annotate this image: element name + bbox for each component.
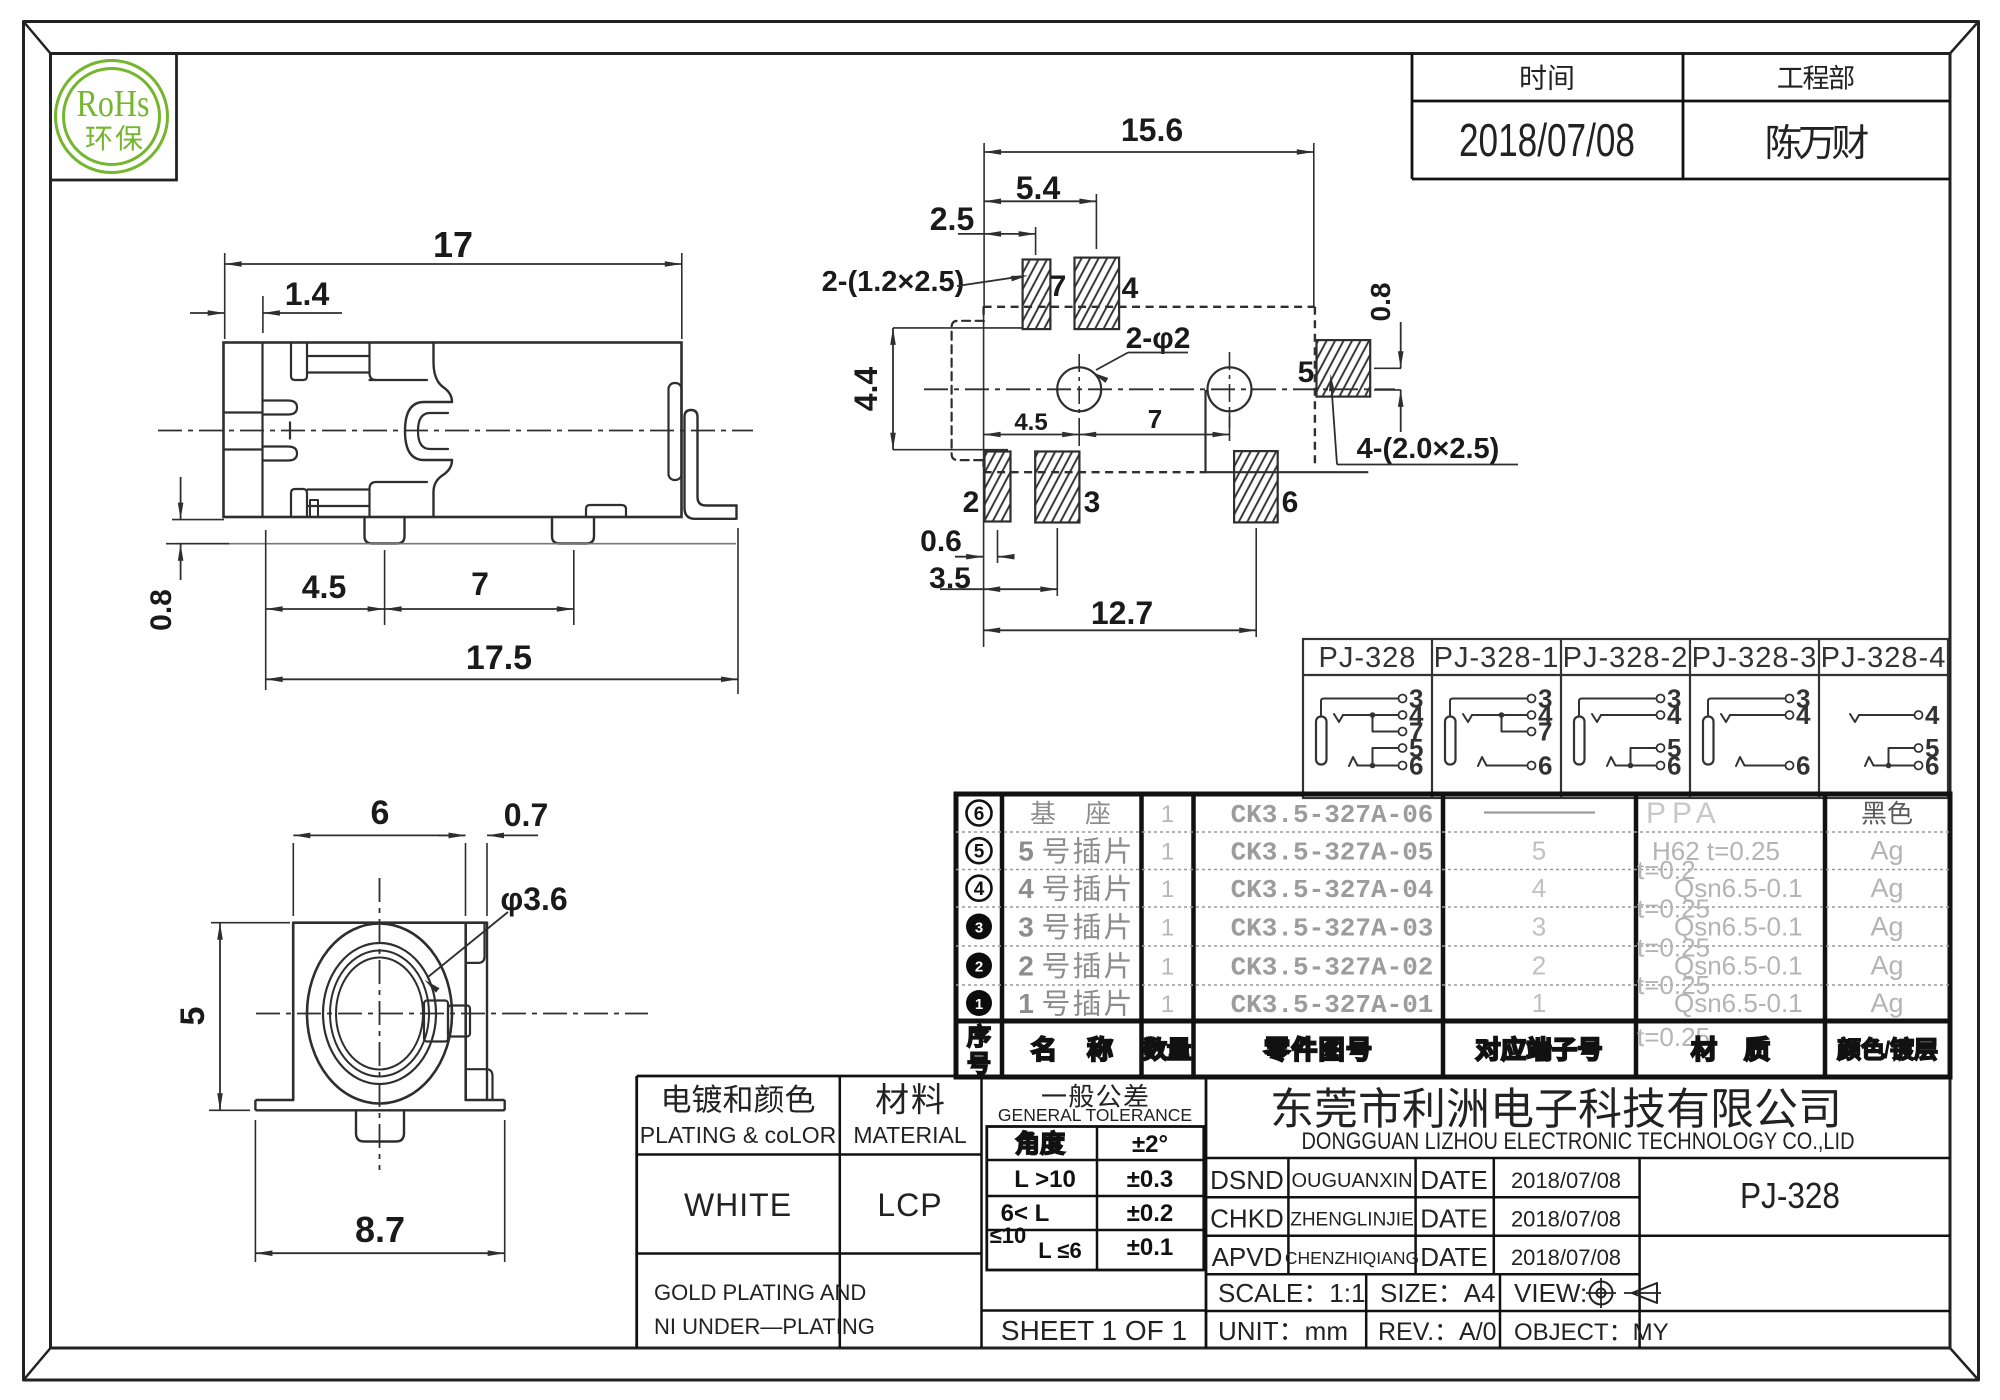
svg-text:17: 17: [433, 224, 473, 265]
svg-text:±0.2: ±0.2: [1127, 1200, 1174, 1227]
dimension 0.6: [920, 525, 1014, 563]
BOM part number CK3.5-327A-04: [1231, 875, 1434, 905]
front view: jack hole ring: [336, 958, 423, 1070]
jack wire to pin 3 col3: [1708, 684, 1810, 717]
svg-text:CK3.5-327A-02: CK3.5-327A-02: [1231, 953, 1434, 983]
svg-text:t=0.25: t=0.25: [1637, 894, 1710, 924]
svg-text:0.8: 0.8: [1365, 283, 1396, 322]
dimension 7 side: [385, 550, 574, 625]
scale row: [1218, 1278, 1587, 1308]
svg-text:2: 2: [1018, 951, 1034, 982]
side view: top terminal arm double line: [307, 356, 370, 373]
jack sleeve symbol col0: [1316, 717, 1327, 765]
label phi3.6: [425, 881, 568, 993]
jack tip contact wire pin 4 col4: [1850, 700, 1940, 730]
BOM part name 基 座: [1031, 801, 1110, 825]
svg-text:7: 7: [471, 566, 489, 602]
variants header PJ-328-3: [1692, 642, 1818, 674]
BOM row index 5: [967, 838, 992, 863]
jack tip contact wire pin 4 col3: [1721, 700, 1811, 730]
BOM table header separator: [956, 1019, 1950, 1024]
svg-text:4.4: 4.4: [848, 367, 884, 412]
dimension 0.8 right: [1365, 283, 1404, 432]
dimension 0.8 left: [145, 477, 229, 631]
footprint: dashed body right edge: [1314, 307, 1316, 464]
svg-text:CK3.5-327A-03: CK3.5-327A-03: [1231, 914, 1434, 944]
BOM row index 3: [966, 914, 992, 940]
dimension 4.5 side: [266, 530, 385, 690]
svg-text:APVD: APVD: [1212, 1242, 1283, 1272]
svg-text:ZHENGLINJIE: ZHENGLINJIE: [1290, 1210, 1414, 1231]
svg-text:UNIT：mm: UNIT：mm: [1218, 1316, 1348, 1346]
svg-text:2-φ2: 2-φ2: [1126, 322, 1191, 355]
jack tip contact wire pin 4 col2: [1592, 700, 1682, 730]
BOM table row lines: [956, 832, 1950, 985]
footprint: solid bracket outline bottom right: [1206, 390, 1369, 472]
svg-text:PJ-328: PJ-328: [1319, 642, 1417, 674]
svg-text:5: 5: [174, 1007, 212, 1026]
front view: top right hook cutout: [466, 924, 485, 963]
side view: upper contact tab capsule: [263, 401, 298, 415]
svg-text:PPA: PPA: [1646, 797, 1722, 830]
jack sleeve symbol col3: [1703, 717, 1714, 765]
jack wire to pin 3 col0: [1321, 684, 1423, 717]
label 4-(2.0x2.5): [1329, 374, 1518, 465]
jack ring contact wire pin 6 col3: [1736, 751, 1810, 781]
svg-text:REV.：A/0: REV.：A/0: [1378, 1318, 1497, 1346]
svg-text:L >10: L >10: [1014, 1166, 1076, 1193]
BOM header 颜色/镀层: [1838, 1037, 1937, 1064]
svg-text:5.4: 5.4: [1016, 170, 1061, 206]
front view: vertical centerline: [379, 878, 381, 1170]
side view: centerline: [158, 430, 753, 432]
svg-text:12.7: 12.7: [1091, 595, 1153, 631]
side view: front wall line: [261, 343, 263, 518]
svg-text:GOLD PLATING AND: GOLD PLATING AND: [654, 1280, 866, 1305]
footprint: pad 4 label: [1122, 272, 1139, 305]
variants table grid: [1303, 639, 1948, 798]
svg-text:4: 4: [1925, 700, 1940, 730]
footprint: dashed left protrusion: [952, 321, 984, 460]
svg-text:7: 7: [1148, 404, 1162, 434]
unit row: [1218, 1316, 1669, 1346]
BOM plating Ag: [1870, 912, 1903, 942]
jack ring contact wire pins 5,6 col0: [1349, 733, 1423, 781]
RoHS logo text: [77, 83, 150, 125]
engineer name 陈万财: [1768, 124, 1868, 159]
footprint: pad 6 hatched: [1234, 451, 1278, 522]
variants header PJ-328-1: [1434, 642, 1560, 674]
BOM material Qsn row: [1637, 894, 1803, 942]
svg-text:PJ-328-4: PJ-328-4: [1821, 642, 1947, 674]
signoff row APVD: [1212, 1242, 1621, 1272]
svg-text:PJ-328-2: PJ-328-2: [1563, 642, 1689, 674]
footprint: pad 2 label: [963, 486, 980, 519]
svg-text:0.8: 0.8: [145, 589, 178, 631]
svg-text:CK3.5-327A-01: CK3.5-327A-01: [1231, 990, 1434, 1020]
view symbol target: [1586, 1278, 1616, 1308]
dimension 17.5: [266, 528, 738, 694]
jack sleeve symbol col1: [1445, 717, 1456, 765]
jack ring contact wire pins 5,6 col4: [1865, 733, 1939, 781]
svg-text:LCP: LCP: [877, 1187, 942, 1223]
front view: mounting flange: [255, 1100, 504, 1110]
svg-text:5: 5: [1409, 733, 1423, 763]
BOM plating Ag: [1870, 951, 1903, 981]
company section rows: [1206, 1158, 1950, 1348]
footprint: main centerline: [924, 388, 1395, 390]
BOM plating Ag: [1870, 988, 1903, 1018]
dimension 5.4: [984, 170, 1096, 249]
tolerance row L>10: [1014, 1166, 1173, 1193]
BOM header 名称: [1032, 1037, 1112, 1061]
svg-text:PJ-328: PJ-328: [1740, 1175, 1840, 1216]
svg-text:CK3.5-327A-04: CK3.5-327A-04: [1231, 875, 1434, 905]
side view: bottom terminal arm double line: [307, 490, 370, 507]
tolerance row 6<L: [1001, 1200, 1174, 1227]
footprint: hole 2 circle: [1208, 352, 1252, 428]
svg-text:L ≤6: L ≤6: [1038, 1238, 1081, 1263]
svg-text:PLATING & coLOR: PLATING & coLOR: [640, 1122, 836, 1148]
date table header 时间: [1521, 65, 1572, 91]
title 材料: [876, 1083, 944, 1114]
svg-text:Ag: Ag: [1870, 912, 1903, 942]
variants header PJ-328: [1319, 642, 1417, 674]
svg-text:5: 5: [1667, 733, 1681, 763]
tolerance row 角度: [1016, 1131, 1168, 1158]
BOM row index 2: [966, 953, 992, 979]
svg-text:5: 5: [974, 842, 985, 863]
RoHS logo circles: [56, 61, 168, 173]
BOM header 零件图号: [1265, 1037, 1370, 1061]
side view: spring horseshoe outer arc: [405, 402, 452, 460]
title 电镀和颜色: [664, 1084, 814, 1113]
front view: switch contact block B: [448, 1006, 470, 1037]
svg-text:6: 6: [1796, 751, 1810, 781]
BOM terminal number 4: [1532, 873, 1546, 903]
svg-text:7: 7: [1538, 717, 1552, 747]
svg-text:0.6: 0.6: [920, 525, 962, 558]
BOM row index 6: [967, 801, 992, 826]
side view: solder foot right: [552, 517, 594, 544]
jack sleeve symbol col2: [1574, 717, 1585, 765]
svg-text:4: 4: [974, 879, 985, 900]
dimension 12.7: [983, 528, 1256, 637]
footprint: pad 3 label: [1084, 486, 1101, 519]
BOM part number CK3.5-327A-03: [1231, 914, 1434, 944]
svg-text:5: 5: [1925, 733, 1939, 763]
title PLATING & coLOR: [640, 1122, 836, 1148]
svg-text:t=0.25: t=0.25: [1637, 933, 1710, 963]
svg-text:6: 6: [1282, 486, 1299, 519]
svg-text:0.7: 0.7: [504, 797, 548, 833]
svg-text:RoHs: RoHs: [77, 83, 150, 125]
footprint: pad 4 hatched: [1075, 258, 1120, 330]
footprint: pad 5 hatched: [1317, 340, 1371, 397]
svg-text:2: 2: [975, 959, 983, 976]
svg-text:3: 3: [1532, 912, 1546, 942]
signoff row DSND: [1210, 1165, 1621, 1195]
side view: bottom inner step: [310, 500, 318, 517]
front view: switch contact block A: [424, 1001, 448, 1042]
svg-text:3: 3: [1018, 912, 1034, 943]
side view: right L-bracket: [685, 410, 737, 519]
BOM row index 4: [967, 876, 992, 901]
footprint: dashed body outline top edge: [984, 306, 1315, 308]
svg-text:VIEW:: VIEW:: [1514, 1278, 1587, 1308]
side view: solder foot left: [365, 517, 405, 544]
side view: spring nose S-curve top: [434, 343, 453, 403]
footprint: pad 2 hatched: [985, 452, 1011, 522]
svg-text:4: 4: [1018, 873, 1034, 904]
side view: connector body outline: [224, 343, 682, 518]
BOM part name 4号插片: [1018, 873, 1129, 904]
variants header PJ-328-2: [1563, 642, 1689, 674]
side view: spring horseshoe inner arc: [418, 413, 448, 449]
jack tip contact wire pins 4,7 col0: [1334, 700, 1424, 747]
dimension 0.7 front: [438, 797, 548, 916]
SHEET 1 OF 1: [1001, 1315, 1187, 1346]
note GOLD PLATING AND: [654, 1280, 866, 1305]
svg-text:SCALE：1:1: SCALE：1:1: [1218, 1278, 1365, 1308]
front view: side plate right edge: [486, 923, 488, 1100]
BOM material H62: [1652, 836, 1780, 866]
signoff row CHKD: [1210, 1204, 1621, 1234]
svg-text:2: 2: [1532, 951, 1546, 981]
jack wire to pin 3 col1: [1450, 684, 1552, 717]
svg-text:4: 4: [1796, 700, 1811, 730]
dimension 8.7: [255, 1120, 504, 1262]
svg-text:φ3.6: φ3.6: [500, 881, 567, 917]
BOM row index 1: [966, 990, 992, 1016]
svg-text:Ag: Ag: [1870, 873, 1903, 903]
svg-text:5: 5: [1018, 836, 1034, 867]
view symbol cone: [1624, 1283, 1661, 1303]
svg-text:17.5: 17.5: [466, 639, 532, 677]
label 2-phi2: [1092, 322, 1190, 383]
dimension 3.5: [929, 528, 1057, 596]
svg-text:NI UNDER—PLATING: NI UNDER—PLATING: [654, 1314, 875, 1339]
side view: left ledge lines: [224, 413, 263, 450]
svg-text:1: 1: [1161, 915, 1174, 942]
BOM terminal number 3: [1532, 912, 1546, 942]
svg-text:PJ-328-3: PJ-328-3: [1692, 642, 1818, 674]
front view: horizontal centerline: [256, 1013, 648, 1015]
BOM header 对应端子号: [1477, 1037, 1601, 1060]
svg-text:DATE: DATE: [1420, 1165, 1487, 1195]
side view: bottom spring block: [370, 482, 428, 517]
svg-text:Ag: Ag: [1870, 951, 1903, 981]
svg-text:3.5: 3.5: [929, 562, 971, 595]
side view: contact gap tick: [289, 422, 291, 440]
jack ring contact wire pins 5,6 col2: [1607, 733, 1681, 781]
BOM plating Ag: [1870, 836, 1903, 866]
footprint: pad 7 label: [1050, 270, 1067, 303]
svg-text:t=0.2: t=0.2: [1637, 855, 1696, 885]
tolerance title 一般公差: [1042, 1084, 1147, 1108]
BOM material PPA: [1646, 797, 1722, 830]
svg-text:±0.1: ±0.1: [1127, 1234, 1174, 1261]
svg-text:1: 1: [1161, 839, 1174, 866]
svg-text:SHEET 1 OF 1: SHEET 1 OF 1: [1001, 1315, 1187, 1346]
svg-text:CHKD: CHKD: [1210, 1204, 1284, 1234]
BOM material Qsn row: [1637, 855, 1803, 903]
dimension 15.6: [984, 112, 1314, 306]
value WHITE: [684, 1187, 792, 1223]
jack tip contact wire pins 4,7 col1: [1463, 700, 1553, 747]
dimension 7 footprint: [1079, 404, 1229, 441]
svg-text:6: 6: [371, 794, 390, 832]
tolerance row L<=6: [990, 1223, 1174, 1263]
BOM table outer border: [956, 794, 1950, 1077]
BOM part name 3号插片: [1018, 912, 1129, 943]
BOM part name 5号插片: [1018, 836, 1129, 867]
front view: housing box: [293, 923, 487, 1100]
footprint: pad 5 label: [1298, 356, 1315, 389]
note NI UNDER-PLATING: [654, 1314, 875, 1339]
footprint: pad 7 hatched: [1023, 260, 1051, 330]
BOM material Qsn row: [1637, 933, 1803, 981]
part number PJ-328: [1740, 1175, 1840, 1216]
front view: barrel outer ring: [307, 924, 452, 1104]
svg-text:3: 3: [1084, 486, 1101, 519]
svg-text:1: 1: [1161, 954, 1174, 981]
svg-text:5: 5: [1298, 356, 1315, 389]
BOM part number CK3.5-327A-05: [1231, 838, 1434, 868]
BOM quantity column: [1161, 801, 1174, 1018]
BOM plating Ag: [1870, 873, 1903, 903]
title block grid: [637, 1076, 1950, 1348]
dimension 4.4: [848, 328, 1022, 450]
svg-text:5: 5: [1532, 836, 1546, 866]
BOM material t=0.25 overflow: [1637, 1022, 1710, 1052]
svg-text:1: 1: [1018, 988, 1034, 1019]
svg-text:CK3.5-327A-06: CK3.5-327A-06: [1231, 800, 1434, 830]
svg-text:1: 1: [1532, 988, 1546, 1018]
BOM header 序号: [968, 1025, 990, 1074]
svg-text:1: 1: [1161, 876, 1174, 903]
BOM terminal number 5: [1532, 836, 1546, 866]
label 2-(1.2x2.5): [822, 266, 1028, 298]
svg-text:4: 4: [1667, 700, 1682, 730]
BOM terminal number 2: [1532, 951, 1546, 981]
svg-text:2-(1.2×2.5): 2-(1.2×2.5): [822, 266, 965, 298]
svg-text:7: 7: [1050, 270, 1067, 303]
BOM terminal dash row1: [1484, 811, 1595, 813]
footprint: dashed body bottom edge: [984, 471, 1206, 473]
svg-text:WHITE: WHITE: [684, 1187, 792, 1223]
svg-text:1.4: 1.4: [285, 276, 330, 312]
BOM part number CK3.5-327A-02: [1231, 953, 1434, 983]
svg-text:Ag: Ag: [1870, 836, 1903, 866]
tolerance title GENERAL TOLERANCE: [998, 1105, 1192, 1125]
svg-text:GENERAL TOLERANCE: GENERAL TOLERANCE: [998, 1105, 1192, 1125]
BOM part number CK3.5-327A-01: [1231, 990, 1434, 1020]
BOM material Qsn row: [1637, 970, 1803, 1018]
date value 2018/07/08: [1459, 114, 1635, 166]
RoHS logo box: [51, 54, 177, 181]
tolerance inner table: [982, 1127, 1207, 1311]
company name english: [1302, 1128, 1855, 1155]
footprint: pad 3 hatched: [1035, 452, 1079, 523]
BOM header 材质: [1692, 1037, 1769, 1061]
svg-text:1: 1: [975, 996, 983, 1013]
svg-text:/: /: [1884, 1037, 1891, 1064]
svg-text:2: 2: [963, 486, 980, 519]
front view: barrel ring 3: [330, 951, 429, 1077]
BOM header 数量: [1144, 1038, 1190, 1060]
BOM terminal number 1: [1532, 988, 1546, 1018]
svg-text:PJ-328-1: PJ-328-1: [1434, 642, 1560, 674]
BOM part name 1号插片: [1018, 988, 1129, 1019]
variants header PJ-328-4: [1821, 642, 1947, 674]
svg-text:t=0.25: t=0.25: [1637, 970, 1710, 1000]
svg-text:DATE: DATE: [1420, 1204, 1487, 1234]
dimension 1.4: [190, 276, 342, 333]
svg-text:4.5: 4.5: [1014, 409, 1047, 436]
side view: top terminal small block: [291, 343, 307, 381]
svg-text:±2°: ±2°: [1132, 1131, 1168, 1158]
svg-text:DATE: DATE: [1420, 1242, 1487, 1272]
svg-text:MATERIAL: MATERIAL: [853, 1122, 967, 1148]
svg-text:6: 6: [1538, 751, 1552, 781]
svg-text:2018/07/08: 2018/07/08: [1511, 1245, 1621, 1270]
side view: spring nose S-curve bottom: [434, 460, 453, 517]
svg-text:1: 1: [1161, 801, 1174, 828]
date table grid: [1412, 54, 1950, 180]
svg-text:4.5: 4.5: [302, 569, 346, 605]
dimension 2.5 top: [930, 201, 1036, 255]
company name chinese: [1273, 1087, 1837, 1128]
svg-text:CK3.5-327A-05: CK3.5-327A-05: [1231, 838, 1434, 868]
svg-text:2.5: 2.5: [930, 201, 974, 237]
dimension 4.5 footprint: [984, 306, 1080, 647]
svg-text:≤10: ≤10: [990, 1223, 1027, 1248]
BOM table column lines: [1002, 794, 1825, 1077]
svg-text:2018/07/08: 2018/07/08: [1511, 1168, 1621, 1193]
footprint: pad 6 label: [1282, 486, 1299, 519]
side view: retention bump on base: [586, 505, 626, 517]
svg-text:CHENZHIQIANG: CHENZHIQIANG: [1285, 1248, 1419, 1268]
svg-text:4: 4: [1532, 873, 1546, 903]
value LCP: [877, 1187, 942, 1223]
RoHS logo chinese 环保: [86, 125, 142, 151]
dimension 17: [225, 224, 682, 339]
svg-text:OBJECT：MY: OBJECT：MY: [1514, 1319, 1669, 1346]
side view: bottom terminal small block: [291, 489, 307, 517]
date table header 工程部: [1778, 65, 1853, 90]
footprint: dashed body left edge: [982, 307, 984, 472]
jack wire to pin 3 col2: [1579, 684, 1681, 717]
svg-text:DONGGUAN LIZHOU ELECTRONIC TEC: DONGGUAN LIZHOU ELECTRONIC TECHNOLOGY CO…: [1302, 1128, 1855, 1155]
svg-text:15.6: 15.6: [1121, 112, 1183, 148]
svg-text:SIZE：A4: SIZE：A4: [1380, 1278, 1496, 1308]
svg-text:±0.3: ±0.3: [1127, 1166, 1174, 1193]
svg-text:OUGUANXIN: OUGUANXIN: [1291, 1170, 1412, 1192]
svg-text:2018/07/08: 2018/07/08: [1459, 114, 1635, 166]
svg-text:8.7: 8.7: [355, 1209, 405, 1250]
title MATERIAL: [853, 1122, 967, 1148]
svg-text:1: 1: [1161, 991, 1174, 1018]
side view: lower contact tab capsule: [263, 447, 298, 461]
svg-text:6: 6: [974, 804, 985, 825]
svg-text:4: 4: [1122, 272, 1139, 305]
front view: barrel ring 2: [323, 943, 436, 1084]
svg-text:3: 3: [975, 920, 983, 937]
svg-text:Ag: Ag: [1870, 988, 1903, 1018]
dimension 5 front: [174, 923, 290, 1111]
side view: right contact capsule: [669, 383, 682, 480]
